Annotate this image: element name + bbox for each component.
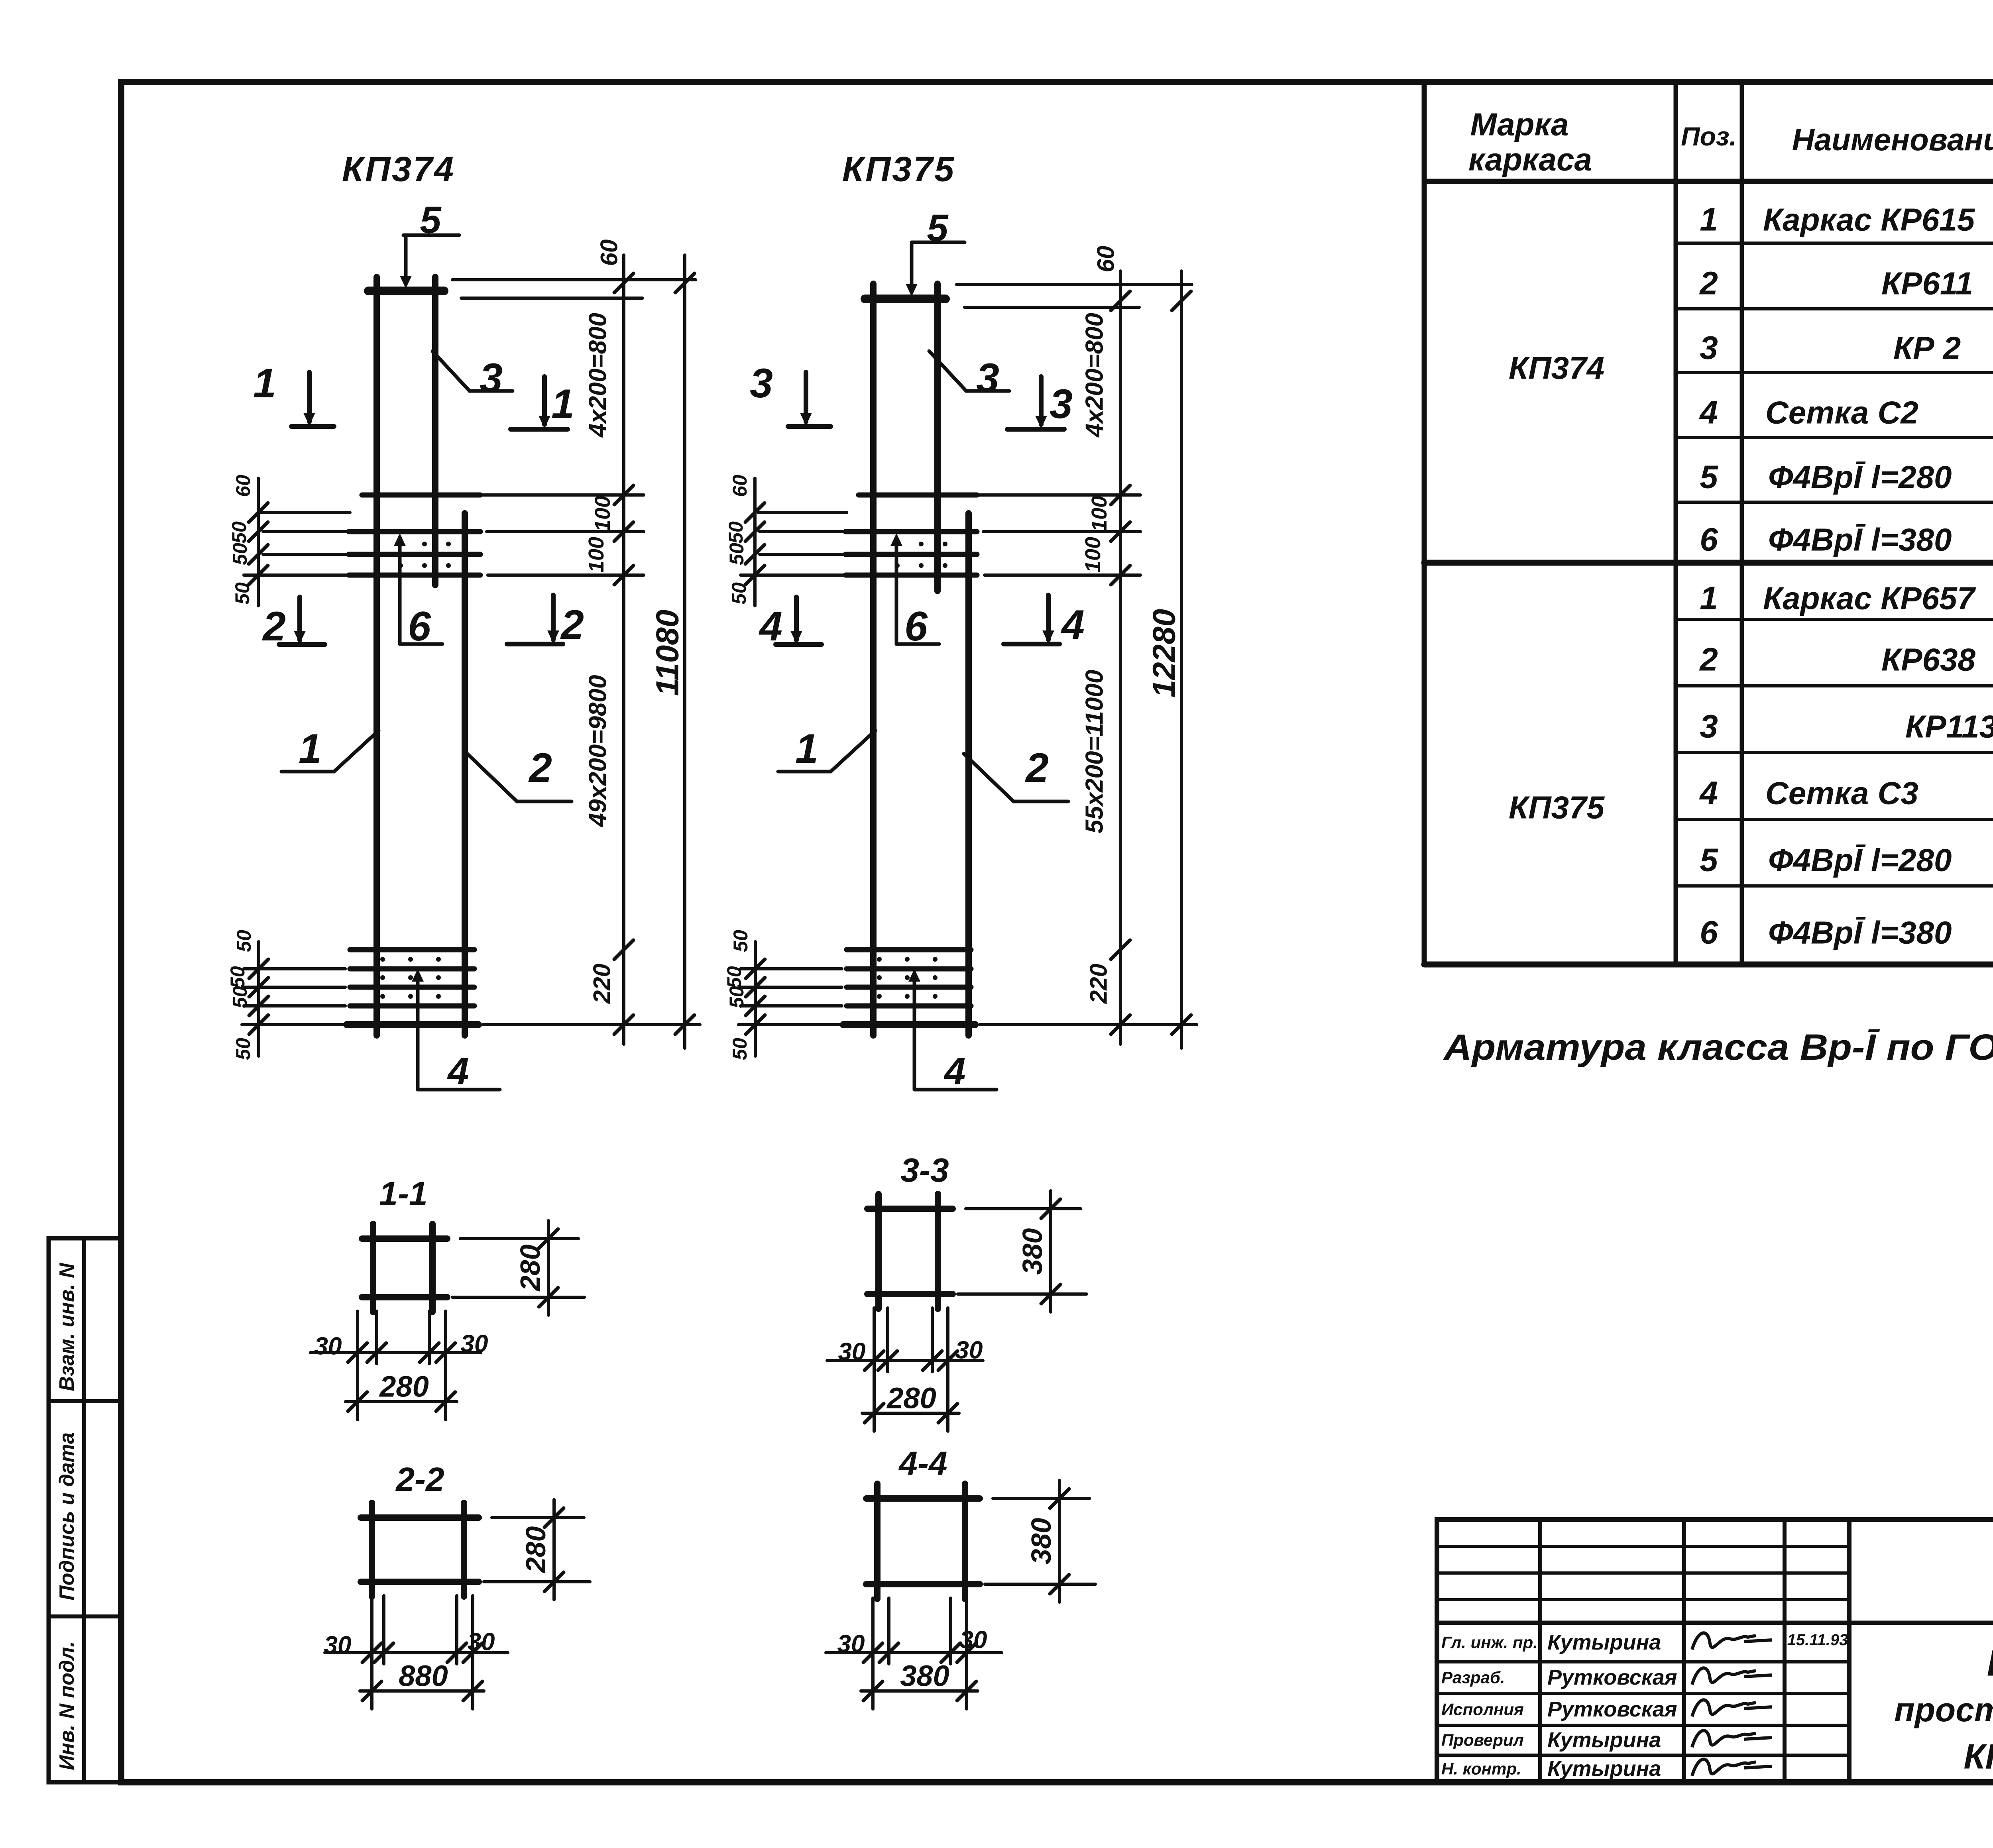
KP375 bottom cross bar a bbox=[847, 947, 971, 952]
svg-text:КР 2: КР 2 bbox=[1893, 330, 1961, 366]
KP375 middle left extension lines bbox=[758, 511, 847, 514]
title block name rows bbox=[1437, 1660, 1849, 1663]
KP374 top cap bar pos5 bbox=[368, 287, 444, 295]
signatures bbox=[1692, 1633, 1772, 1650]
svg-text:30: 30 bbox=[461, 1330, 488, 1358]
svg-text:КП375: КП375 bbox=[842, 149, 955, 189]
svg-text:4: 4 bbox=[447, 1050, 469, 1093]
title block outer bbox=[1437, 1520, 1993, 1782]
svg-text:5: 5 bbox=[1700, 459, 1718, 495]
KP374 top extension lines bbox=[452, 278, 696, 281]
KP375 top cap bar pos5 bbox=[865, 295, 945, 303]
svg-text:4x200=800: 4x200=800 bbox=[1081, 313, 1109, 438]
svg-text:280: 280 bbox=[520, 1526, 551, 1574]
svg-text:Сетка С2: Сетка С2 bbox=[1765, 395, 1918, 430]
KP375 bottom cross bar c bbox=[847, 985, 971, 990]
svg-text:4: 4 bbox=[1061, 602, 1085, 648]
svg-text:Проверил: Проверил bbox=[1441, 1731, 1524, 1750]
KP374 bar 2 lower right vertical bbox=[462, 513, 468, 1035]
svg-text:1: 1 bbox=[1700, 202, 1718, 238]
KP374 middle right extension lines bbox=[482, 493, 644, 497]
KP375 bar 3 upper right vertical bbox=[934, 284, 941, 591]
KP375 bottom cross bar b bbox=[847, 966, 971, 972]
KP375 middle cross bar b bbox=[845, 529, 977, 534]
svg-text:Н. контр.: Н. контр. bbox=[1441, 1760, 1521, 1778]
KP374 bar 1 left vertical bbox=[373, 277, 380, 1035]
KP374 bottom left dim line bbox=[257, 942, 260, 1056]
KP375 bottom right extension line bbox=[980, 1023, 1197, 1026]
svg-text:220: 220 bbox=[1085, 964, 1112, 1004]
title block verticals bbox=[1538, 1520, 1542, 1782]
KP374 bar 3 upper right vertical bbox=[432, 277, 438, 585]
svg-text:КП374, КП375: КП374, КП375 bbox=[1964, 1737, 1993, 1776]
svg-text:50: 50 bbox=[229, 543, 251, 565]
svg-text:30: 30 bbox=[314, 1333, 342, 1360]
KP374 bottom cross bar a bbox=[350, 947, 474, 952]
stamp boxes grid bbox=[49, 1238, 121, 1782]
svg-text:Ф4ВрĪ l=380: Ф4ВрĪ l=380 bbox=[1768, 915, 1952, 951]
KP375 middle left dim line bbox=[753, 478, 757, 606]
svg-text:3: 3 bbox=[976, 355, 999, 401]
KP374 middle left extension lines bbox=[261, 511, 350, 514]
KP374 bottom cross bar b bbox=[350, 966, 474, 972]
svg-text:6: 6 bbox=[1700, 522, 1718, 558]
svg-text:60: 60 bbox=[232, 475, 254, 497]
svg-text:30: 30 bbox=[960, 1626, 987, 1654]
svg-text:КП374: КП374 bbox=[342, 149, 455, 189]
KP375 bar 2 lower right vertical bbox=[965, 513, 972, 1035]
svg-text:30: 30 bbox=[837, 1630, 865, 1658]
KP374 dim line B overall bbox=[683, 255, 686, 1048]
KP374 middle cross bar c bbox=[349, 552, 480, 557]
KP375 top extension lines bbox=[957, 283, 1192, 286]
svg-text:1: 1 bbox=[551, 381, 574, 427]
svg-text:50: 50 bbox=[723, 966, 745, 988]
svg-text:50: 50 bbox=[728, 582, 750, 605]
svg-text:50: 50 bbox=[226, 966, 249, 988]
svg-text:280: 280 bbox=[886, 1382, 936, 1415]
svg-text:Поз.: Поз. bbox=[1681, 122, 1737, 151]
svg-text:100: 100 bbox=[591, 496, 615, 532]
KP375 middle cross bar d bbox=[845, 573, 977, 578]
svg-text:2-2: 2-2 bbox=[395, 1461, 444, 1498]
svg-text:Кутырина: Кутырина bbox=[1547, 1757, 1661, 1781]
svg-text:КР113: КР113 bbox=[1905, 709, 1993, 744]
svg-text:50: 50 bbox=[725, 986, 748, 1008]
KP374 bottom cross bar d bbox=[350, 1004, 474, 1009]
svg-text:3: 3 bbox=[750, 360, 773, 407]
svg-text:50: 50 bbox=[229, 986, 251, 1008]
svg-text:Кутырина: Кутырина bbox=[1547, 1728, 1661, 1752]
svg-text:100: 100 bbox=[1087, 496, 1111, 532]
KP375 bottom weld dots bbox=[877, 957, 882, 962]
svg-text:4: 4 bbox=[943, 1050, 965, 1093]
svg-text:Рутковская: Рутковская bbox=[1547, 1697, 1677, 1721]
KP374 bottom left extension lines bbox=[244, 967, 345, 970]
svg-text:2: 2 bbox=[528, 745, 552, 791]
svg-text:КР638: КР638 bbox=[1881, 642, 1976, 678]
svg-text:Гл. инж. пр.: Гл. инж. пр. bbox=[1441, 1633, 1538, 1652]
svg-text:380: 380 bbox=[900, 1659, 949, 1693]
svg-text:Подпись и дата: Подпись и дата bbox=[55, 1432, 79, 1601]
KP374 bottom right extension line bbox=[483, 1023, 700, 1026]
svg-text:220: 220 bbox=[589, 964, 615, 1004]
KP375 bottom left extension lines bbox=[741, 967, 842, 970]
svg-text:Кутырина: Кутырина bbox=[1547, 1630, 1661, 1654]
KP375 bottom left dim line bbox=[754, 942, 757, 1056]
KP375 middle weld dots bbox=[895, 542, 900, 546]
svg-text:Ф4ВрĪ l=280: Ф4ВрĪ l=280 bbox=[1768, 460, 1952, 495]
svg-text:380: 380 bbox=[1017, 1228, 1048, 1275]
KP374 bottom cross bar c bbox=[350, 985, 474, 990]
svg-text:Рутковская: Рутковская bbox=[1547, 1665, 1677, 1689]
svg-text:60: 60 bbox=[1093, 246, 1119, 273]
KP375 bottom cap bar bbox=[843, 1021, 975, 1028]
svg-text:50: 50 bbox=[232, 1038, 254, 1060]
svg-text:пространственный: пространственный bbox=[1894, 1691, 1993, 1728]
svg-text:60: 60 bbox=[596, 240, 623, 266]
table inner row lines bbox=[1676, 242, 1993, 245]
svg-text:3: 3 bbox=[1700, 330, 1718, 366]
KP375 middle cross bar c bbox=[845, 552, 977, 557]
svg-text:50: 50 bbox=[231, 582, 254, 605]
svg-text:4-4: 4-4 bbox=[898, 1445, 947, 1482]
table header bottom line bbox=[1424, 179, 1993, 184]
svg-text:50: 50 bbox=[228, 521, 250, 544]
KP375 middle right extension lines bbox=[979, 493, 1140, 497]
svg-text:50: 50 bbox=[725, 543, 748, 565]
svg-text:2: 2 bbox=[1699, 642, 1718, 678]
svg-text:Инв. N подл.: Инв. N подл. bbox=[55, 1641, 79, 1770]
svg-text:Взам. инв. N: Взам. инв. N bbox=[55, 1263, 79, 1391]
svg-text:49x200=9800: 49x200=9800 bbox=[584, 675, 612, 827]
svg-text:6: 6 bbox=[1700, 915, 1718, 951]
svg-text:КП375: КП375 bbox=[1509, 790, 1605, 825]
svg-text:280: 280 bbox=[515, 1245, 546, 1292]
svg-text:11080: 11080 bbox=[650, 610, 685, 696]
svg-text:Ф4ВрĪ l=380: Ф4ВрĪ l=380 bbox=[1768, 522, 1952, 558]
svg-text:50: 50 bbox=[729, 1038, 751, 1060]
svg-text:30: 30 bbox=[955, 1337, 983, 1364]
KP374 dim line A chain bbox=[622, 255, 625, 1044]
svg-text:КР611: КР611 bbox=[1881, 266, 1973, 301]
svg-text:3: 3 bbox=[480, 355, 503, 401]
KP374 middle cross bar b bbox=[349, 529, 480, 534]
svg-text:4: 4 bbox=[1699, 395, 1718, 431]
KP374 middle left dim line bbox=[257, 478, 260, 606]
svg-text:50: 50 bbox=[729, 930, 752, 952]
svg-text:Разраб.: Разраб. bbox=[1441, 1668, 1505, 1687]
svg-text:280: 280 bbox=[379, 1370, 428, 1403]
svg-text:50: 50 bbox=[725, 521, 747, 544]
KP375 dim line A chain bbox=[1119, 271, 1122, 1044]
svg-text:3-3: 3-3 bbox=[900, 1151, 949, 1189]
KP375 bar 1 left vertical bbox=[870, 284, 877, 1035]
svg-text:3: 3 bbox=[1700, 709, 1718, 745]
svg-text:Каркас: Каркас bbox=[1987, 1642, 1993, 1684]
svg-text:5: 5 bbox=[1700, 842, 1718, 878]
svg-text:2: 2 bbox=[1699, 265, 1718, 302]
svg-text:30: 30 bbox=[468, 1628, 495, 1656]
svg-text:1: 1 bbox=[1700, 580, 1718, 617]
svg-text:Каркас КР657: Каркас КР657 bbox=[1763, 581, 1976, 616]
KP375 middle cross bar a bbox=[859, 493, 977, 498]
svg-text:15.11.93: 15.11.93 bbox=[1787, 1631, 1848, 1649]
svg-text:КП374: КП374 bbox=[1509, 350, 1604, 386]
svg-text:1: 1 bbox=[795, 726, 818, 772]
svg-text:Наименование: Наименование bbox=[1792, 122, 1993, 157]
svg-text:Марка: Марка bbox=[1470, 107, 1569, 142]
table outer and verticals bbox=[1422, 82, 1427, 964]
svg-text:2: 2 bbox=[1025, 745, 1049, 791]
svg-text:30: 30 bbox=[838, 1338, 866, 1366]
svg-text:100: 100 bbox=[1081, 537, 1105, 573]
title block main divider bbox=[1437, 1621, 1993, 1625]
KP374 middle weld dots bbox=[398, 542, 403, 546]
svg-text:каркаса: каркаса bbox=[1468, 142, 1592, 177]
KP374 middle cross bar d bbox=[349, 573, 480, 578]
KP374 bottom weld dots bbox=[380, 957, 385, 962]
svg-text:4: 4 bbox=[1699, 775, 1718, 811]
svg-text:50: 50 bbox=[233, 930, 255, 952]
title block small rows bbox=[1437, 1545, 1849, 1548]
KP375 dim line B overall bbox=[1180, 271, 1183, 1048]
svg-text:4x200=800: 4x200=800 bbox=[584, 313, 612, 438]
svg-text:60: 60 bbox=[729, 475, 751, 497]
svg-text:100: 100 bbox=[584, 537, 608, 573]
svg-text:Сетка С3: Сетка С3 bbox=[1765, 776, 1918, 811]
svg-text:30: 30 bbox=[324, 1632, 352, 1659]
svg-text:Арматура класса Вр-Ī по ГОСТ 6: Арматура класса Вр-Ī по ГОСТ 6727-80 bbox=[1443, 1027, 1993, 1068]
table thick separator KP374/KP375 bbox=[1424, 560, 1993, 566]
KP374 middle cross bar a bbox=[362, 493, 480, 498]
KP375 bottom cross bar d bbox=[847, 1004, 971, 1009]
svg-text:2: 2 bbox=[560, 602, 584, 648]
svg-text:12280: 12280 bbox=[1146, 609, 1182, 697]
svg-text:380: 380 bbox=[1026, 1518, 1057, 1565]
KP374 bottom cap bar bbox=[347, 1021, 478, 1028]
svg-text:Ф4ВрĪ l=280: Ф4ВрĪ l=280 bbox=[1768, 842, 1952, 878]
svg-text:1: 1 bbox=[253, 360, 276, 407]
svg-text:Исполния: Исполния bbox=[1441, 1700, 1524, 1719]
svg-text:Каркас КР615: Каркас КР615 bbox=[1763, 202, 1975, 238]
svg-text:55x200=11000: 55x200=11000 bbox=[1081, 670, 1109, 834]
svg-text:3: 3 bbox=[1050, 381, 1073, 427]
svg-text:880: 880 bbox=[399, 1659, 448, 1693]
svg-text:1-1: 1-1 bbox=[379, 1175, 427, 1212]
svg-text:1: 1 bbox=[299, 726, 322, 772]
